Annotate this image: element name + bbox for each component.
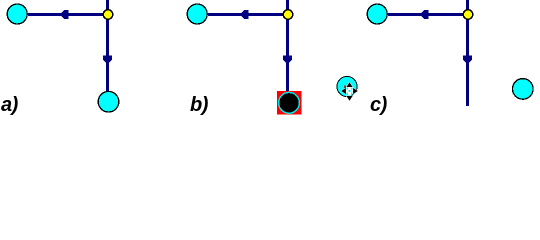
node: top-left cyan circle (a) — [7, 4, 27, 24]
node: top-left cyan circle (c) — [367, 4, 387, 24]
wire: vertical from node B down to selected square — [286, 18, 289, 92]
wire: vertical from node A down to bottom circle — [106, 18, 109, 91]
wire: vertical dangling edge from node C — [466, 18, 469, 106]
node: detached cyan circle (c) — [513, 79, 534, 100]
node: bottom cyan circle (a) — [98, 91, 119, 112]
arrowhead pointing down on vertical wire — [283, 56, 292, 65]
wire: vertical stub entering from top to node A — [106, 0, 109, 11]
node: top-left cyan circle (b) — [187, 4, 207, 24]
arrowhead pointing left on horizontal wire — [420, 10, 429, 19]
wire: vertical stub entering from top to node C — [466, 0, 469, 11]
arrowhead pointing down on vertical wire — [103, 56, 112, 65]
node: yellow junction (b) — [283, 10, 293, 20]
wire: horizontal from node A to left circle — [28, 13, 104, 16]
arrowhead pointing left on horizontal wire — [240, 10, 249, 19]
move cursor: black arrowheads with white outline — [341, 82, 358, 100]
wire: vertical stub entering from top to node B — [286, 0, 289, 11]
arrowhead pointing down on vertical wire — [463, 56, 472, 65]
node: yellow junction (c) — [463, 10, 473, 20]
label c) — [370, 94, 387, 117]
wire: horizontal from node C to left circle — [388, 13, 464, 16]
move cursor: white shafts of cross — [346, 87, 354, 95]
label b) — [190, 94, 208, 117]
arrowhead pointing left on horizontal wire — [60, 10, 69, 19]
small cyan circle being dragged — [337, 76, 357, 96]
selected node: black circle with cyan ring — [279, 92, 300, 113]
label a) — [1, 94, 18, 117]
selected node: red square highlight — [277, 91, 302, 115]
red hotspot dot on cursor — [344, 86, 346, 88]
node: yellow junction (a) — [103, 10, 113, 20]
wire: horizontal from node B to left circle — [208, 13, 284, 16]
